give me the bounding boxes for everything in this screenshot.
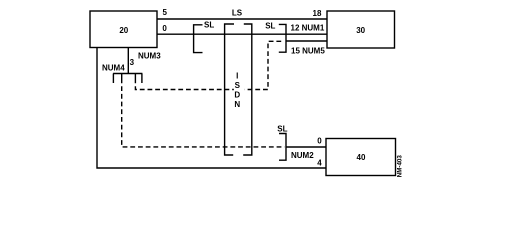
wire stem port3 <box>127 48 129 75</box>
wire L4 port0 of box40 <box>286 146 326 148</box>
svg-text:30: 30 <box>356 26 365 35</box>
mask behind ISDN letters <box>234 72 245 109</box>
connector SL bracket B3 <box>279 134 286 161</box>
box 20 <box>90 11 157 48</box>
svg-text:SL: SL <box>277 124 287 133</box>
svg-text:LS: LS <box>232 9 243 18</box>
svg-text:40: 40 <box>357 153 366 162</box>
label ISDN <box>234 72 240 110</box>
svg-text:18: 18 <box>313 9 322 18</box>
box 30 <box>327 11 395 48</box>
wire L2 port0 to port12 <box>157 33 327 35</box>
svg-text:15 NUM5: 15 NUM5 <box>291 46 325 55</box>
svg-text:NUM4: NUM4 <box>102 63 125 72</box>
svg-text:S: S <box>235 81 241 90</box>
svg-text:I: I <box>236 72 238 81</box>
svg-text:0: 0 <box>162 24 167 33</box>
svg-text:D: D <box>234 91 240 100</box>
svg-text:NUM3: NUM3 <box>138 52 161 61</box>
svg-text:3: 3 <box>130 58 135 67</box>
dashed wire A (SL to 15 NUM5) <box>135 41 284 89</box>
comb connector <box>113 74 142 84</box>
connector SL bracket B1 <box>194 25 203 53</box>
svg-text:12 NUM1: 12 NUM1 <box>291 24 325 33</box>
wire L5 port4 of box40 <box>97 48 326 169</box>
svg-text:SL: SL <box>265 22 275 31</box>
ISDN network frame <box>225 24 252 155</box>
svg-text:SL: SL <box>204 21 214 30</box>
svg-text:4: 4 <box>317 158 322 167</box>
wire L1 port5 to port18 <box>157 18 327 20</box>
svg-text:NUM2: NUM2 <box>291 151 314 160</box>
dashed wire B (NUM4 to NUM2) <box>122 79 285 147</box>
connector SL bracket B2 <box>279 24 286 52</box>
svg-text:N: N <box>234 100 240 109</box>
svg-text:20: 20 <box>119 26 128 35</box>
svg-text:5: 5 <box>162 8 167 17</box>
svg-text:0: 0 <box>317 137 322 146</box>
svg-text:NM-403: NM-403 <box>396 155 403 178</box>
wire L3 port15 <box>286 40 327 42</box>
box 40 <box>326 139 396 176</box>
